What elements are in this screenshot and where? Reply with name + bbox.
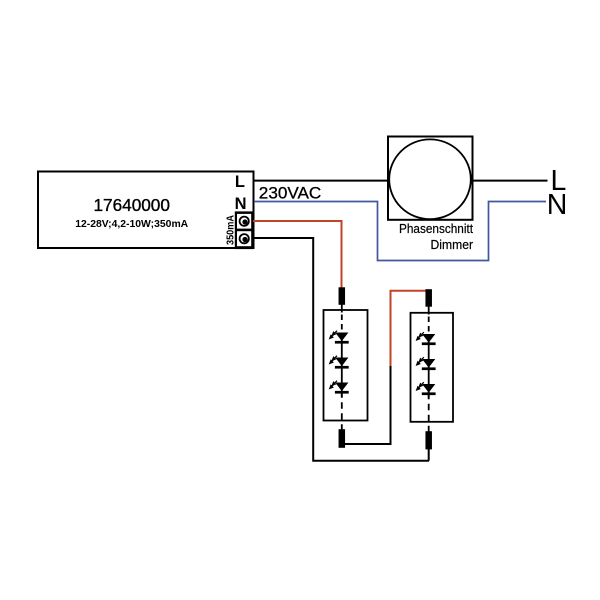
svg-text:230VAC: 230VAC (259, 183, 322, 202)
svg-text:N: N (235, 195, 247, 213)
svg-text:350mA: 350mA (226, 215, 237, 245)
svg-text:Dimmer: Dimmer (431, 237, 474, 252)
svg-text:Phasenschnitt: Phasenschnitt (399, 221, 473, 236)
svg-text:N: N (547, 189, 568, 221)
svg-text:L: L (235, 173, 245, 191)
svg-text:17640000: 17640000 (93, 195, 169, 215)
svg-text:12-28V;4,2-10W;350mA: 12-28V;4,2-10W;350mA (75, 218, 188, 230)
